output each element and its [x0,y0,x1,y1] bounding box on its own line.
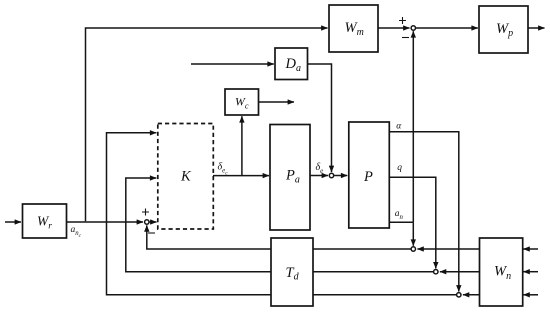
node top summing junction [411,26,415,30]
wire noise input 1 [523,248,538,250]
wire delta_e junction to P [334,175,347,177]
wire left junction to K [150,221,157,223]
svg-text:Pa: Pa [285,167,300,185]
svg-text:an: an [395,209,404,221]
svg-text:Wr: Wr [37,214,52,232]
wire top junction to Wp [416,27,478,29]
svg-text:P: P [363,169,373,185]
block Da [275,48,308,80]
wire Da output down to delta_e junction [308,64,332,172]
wire Wc output z1 [259,101,295,103]
wire alpha output of P down to junction 3 [389,132,459,292]
wire Wn to junction 3 [463,294,480,296]
wire an output of P to feedback vertical [389,221,413,223]
svg-text:δec: δec [218,162,229,177]
svg-text:Wn: Wn [494,264,511,283]
block Wp [479,6,528,53]
block Td [271,238,313,306]
wire r input to Wr [5,221,21,223]
wire Wm output to top junction [378,27,410,29]
wire Wn to junction 1 [417,248,479,250]
wire Wn to junction 2 [440,271,480,273]
svg-text:K: K [180,169,192,185]
minus sign at top junction [402,37,409,39]
wire Wp output [528,27,545,29]
block Wn [480,238,523,306]
wire q output of P down to junction 2 [389,177,436,268]
plus sign at left junction [142,209,149,216]
wire an vertical down to junction 1 [412,222,414,246]
block Wm [329,5,378,52]
wire branch up to Wc [241,116,243,175]
svg-text:anc: anc [71,225,82,239]
wire noise input 3 [523,294,538,296]
block Wr [23,204,67,238]
node delta_e summing junction [329,173,333,177]
svg-text:Wp: Wp [496,21,513,39]
wire d input to Da [191,63,274,65]
wire Pa output to delta_e junction [310,175,328,177]
svg-text:q: q [397,163,402,173]
wire branch a_nc up to Wm [86,28,328,221]
block P [349,122,390,228]
svg-text:α: α [396,121,402,131]
block Pa [270,125,310,231]
node junction 3 [457,293,461,297]
block K dashed [158,124,214,230]
node left summing junction [145,220,149,224]
wire junction 3 through Td up to K input 1 [107,133,457,295]
svg-text:Da: Da [285,56,301,74]
minus sign at left junction [148,232,155,234]
wire Wr output to left summing junction [67,221,144,223]
svg-text:Wc: Wc [235,95,249,111]
plus sign at top junction [399,17,406,24]
node junction 2 [434,270,438,274]
wire an vertical up to top junction [412,31,414,222]
svg-text:δe: δe [316,162,324,175]
wire junction 1 through Td up to left junction minus [147,225,411,249]
wire noise input 2 [523,271,538,273]
node junction 1 [411,247,415,251]
wire junction 2 through Td up to K input 2 [126,178,433,272]
svg-text:Wm: Wm [345,20,364,38]
wire K output to Pa [213,175,269,177]
block Wc [225,89,259,115]
